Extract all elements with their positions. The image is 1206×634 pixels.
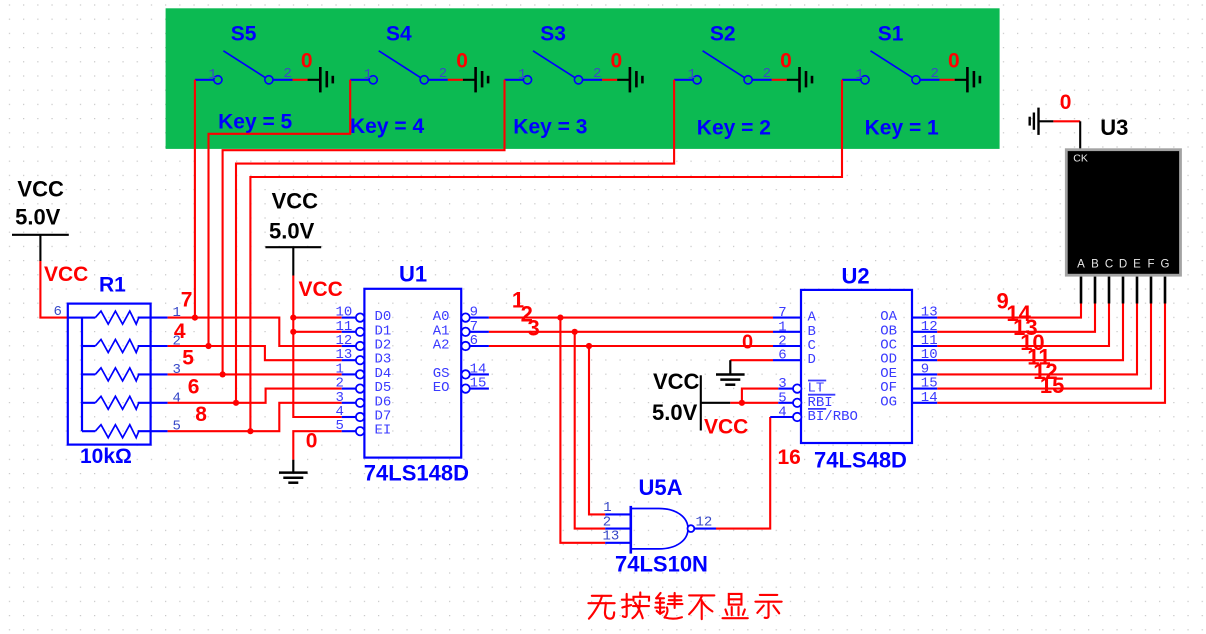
pin 5 U1 EI xyxy=(336,418,392,439)
net label 0 (U1 ground) xyxy=(306,430,318,453)
pin 9 U1 A0 xyxy=(433,305,489,326)
wire S3 pin2 to ground xyxy=(602,79,617,81)
junction A2 branch xyxy=(586,343,592,349)
svg-text:B: B xyxy=(1091,259,1099,271)
ground (digital, rotated) at S5 xyxy=(308,67,333,92)
svg-text:S3: S3 xyxy=(540,23,566,46)
switch S2 xyxy=(674,23,772,84)
wire R1 pin2 to U1 D3 xyxy=(168,346,342,360)
net label 4 xyxy=(174,320,186,343)
wire VCC branch to D0 xyxy=(293,317,341,319)
wire S2 pin2 to ground xyxy=(772,79,787,81)
junction S1 net xyxy=(247,428,253,434)
wire VCC to R1 pin6 xyxy=(40,261,67,318)
net label 0 at S5 xyxy=(301,50,313,73)
wire U1 EI to ground xyxy=(293,431,341,460)
svg-text:A2: A2 xyxy=(433,338,450,354)
svg-text:14: 14 xyxy=(921,390,938,406)
svg-text:1: 1 xyxy=(208,67,216,83)
junction S2 net xyxy=(233,400,239,406)
svg-text:13: 13 xyxy=(603,528,620,544)
svg-text:16: 16 xyxy=(778,446,801,469)
switch S5 xyxy=(195,23,293,84)
junction S5/R1 pin1/D2 net xyxy=(192,315,198,321)
pin 13 U1 D3 xyxy=(336,347,392,368)
svg-text:1: 1 xyxy=(173,305,181,321)
pin 14 U1 GS xyxy=(433,361,489,382)
svg-text:0: 0 xyxy=(301,50,313,73)
wire U1 A2 to U2 C xyxy=(489,345,773,347)
svg-text:S4: S4 xyxy=(386,23,412,46)
svg-text:0: 0 xyxy=(456,50,468,73)
svg-text:6: 6 xyxy=(54,304,62,320)
svg-text:A: A xyxy=(1077,259,1085,271)
wire A2 branch to U5A pin1 xyxy=(589,346,605,514)
svg-text:VCC: VCC xyxy=(704,416,748,439)
svg-text:2: 2 xyxy=(593,66,601,82)
svg-text:0: 0 xyxy=(742,331,753,353)
ground near U2 xyxy=(716,360,745,385)
wire S5 pin1 to node 7 row xyxy=(194,80,196,318)
svg-text:S2: S2 xyxy=(710,23,736,46)
value label 10kOhm xyxy=(80,445,132,468)
wire ground to U3 CK xyxy=(1053,120,1080,122)
wire U2 OG to display segment xyxy=(937,303,1165,403)
svg-text:0: 0 xyxy=(611,50,623,73)
label R1 xyxy=(99,274,126,297)
junction A0 branch xyxy=(557,315,563,321)
svg-text:5: 5 xyxy=(182,347,194,370)
svg-text:Key = 3: Key = 3 xyxy=(513,116,587,139)
label Key = 3 xyxy=(513,116,587,139)
pin G U3 stub xyxy=(1164,277,1167,304)
svg-text:5.0V: 5.0V xyxy=(15,205,61,230)
junction VCC/D0 xyxy=(290,315,296,321)
green highlight band behind switches xyxy=(166,8,1000,149)
svg-text:D: D xyxy=(808,352,816,368)
svg-text:74LS10N: 74LS10N xyxy=(615,552,708,577)
pin C U3 stub xyxy=(1108,277,1111,304)
pin A U3 stub xyxy=(1080,277,1083,304)
net label 11 xyxy=(1027,344,1050,369)
net label VCC (left, red) xyxy=(44,263,88,286)
display U3 seven-segment xyxy=(1066,150,1180,276)
pin 12 U2 OB xyxy=(880,319,937,340)
wire S1 pin2 to ground xyxy=(940,79,955,81)
wire U2 OA to display segment xyxy=(937,303,1081,318)
svg-text:R1: R1 xyxy=(99,274,126,297)
stub U2 BI/RBO xyxy=(770,416,793,418)
net label 0 (U3) xyxy=(1060,91,1072,114)
pin 4 U1 D7 xyxy=(336,404,392,425)
label U3 xyxy=(1100,115,1128,140)
wire VCC to U2 LT/RBI xyxy=(730,402,778,404)
svg-text:2: 2 xyxy=(763,66,771,82)
svg-text:G: G xyxy=(1161,259,1170,271)
net label 9 xyxy=(997,288,1009,313)
wire U2 OB to display segment xyxy=(937,303,1095,332)
net label 1 xyxy=(512,288,524,313)
net label 14 xyxy=(1006,301,1031,326)
wire U2 OC to display segment xyxy=(937,303,1109,346)
svg-text:EO: EO xyxy=(433,380,450,396)
net label 5 xyxy=(182,347,194,370)
svg-text:6: 6 xyxy=(778,348,786,364)
pin 9 U2 OE xyxy=(880,361,937,382)
label U5A xyxy=(639,475,683,500)
label U1 xyxy=(399,262,427,287)
svg-text:F: F xyxy=(1147,259,1154,271)
pin 11 U2 OC xyxy=(880,333,937,354)
pin 2 U1 D5 xyxy=(336,376,392,397)
svg-text:1: 1 xyxy=(364,67,372,83)
label 74LS48D xyxy=(814,448,907,473)
junction S3 net xyxy=(220,371,226,377)
junction A1 branch xyxy=(572,329,578,335)
junction VCC/D1 xyxy=(290,329,296,335)
wire S5 pin2 to ground xyxy=(293,79,308,81)
svg-text:U3: U3 xyxy=(1100,115,1128,140)
net label VCC (near U2, red) xyxy=(704,416,748,439)
svg-text:U1: U1 xyxy=(399,262,427,287)
net label VCC (middle, red) xyxy=(299,278,343,301)
pin 15 U1 EO xyxy=(433,376,489,397)
pin 3 U2 LT xyxy=(778,376,826,397)
wire U2 D to ground xyxy=(730,359,773,361)
wire U2 OD to display segment xyxy=(937,303,1123,360)
svg-text:VCC: VCC xyxy=(272,188,319,213)
svg-text:12: 12 xyxy=(696,515,713,531)
svg-text:2: 2 xyxy=(439,66,447,82)
svg-text:5: 5 xyxy=(173,419,181,435)
label Key = 1 xyxy=(865,116,939,139)
svg-text:6: 6 xyxy=(188,376,200,399)
svg-text:6: 6 xyxy=(470,333,478,349)
power VCC 5.0V (middle) xyxy=(265,188,321,275)
pin 7 U2 A xyxy=(773,305,817,326)
svg-text:5: 5 xyxy=(336,418,344,434)
net label 13 xyxy=(1013,315,1037,340)
resistor network R1 10k ohm xyxy=(54,304,181,445)
svg-text:1: 1 xyxy=(688,67,696,83)
svg-text:Key = 5: Key = 5 xyxy=(218,110,292,133)
svg-text:0: 0 xyxy=(1060,91,1072,114)
wire S4 pin1 to node 4 row xyxy=(209,80,351,346)
svg-text:Key = 2: Key = 2 xyxy=(697,116,771,139)
svg-text:8: 8 xyxy=(195,403,207,426)
net label 15 xyxy=(1040,373,1064,398)
pin 14 U2 OG xyxy=(880,390,937,411)
svg-text:2: 2 xyxy=(931,66,939,82)
net label 2 xyxy=(521,301,533,326)
label Key = 4 xyxy=(350,115,424,138)
svg-text:5.0V: 5.0V xyxy=(269,219,315,244)
wire R1 pin3 to U1 D4 xyxy=(168,373,342,375)
svg-text:0: 0 xyxy=(780,50,792,73)
junction VCC/RBI xyxy=(739,400,745,406)
svg-text:VCC: VCC xyxy=(17,176,64,201)
svg-text:10kΩ: 10kΩ xyxy=(80,445,132,468)
svg-text:D: D xyxy=(1119,259,1127,271)
svg-text:U5A: U5A xyxy=(639,475,683,500)
junction S4 net xyxy=(205,343,211,349)
pin 3 U1 D6 xyxy=(336,390,392,411)
svg-text:C: C xyxy=(1105,259,1113,271)
wire A0 branch to U5A pin13 xyxy=(560,318,605,543)
pin 1 U1 D4 xyxy=(336,361,392,382)
label U2 xyxy=(842,264,870,289)
wire U1 A1 to U2 B xyxy=(489,331,773,333)
svg-text:0: 0 xyxy=(306,430,318,453)
wire R1 pin5 to U1 D6 xyxy=(168,403,342,431)
svg-text:Key = 4: Key = 4 xyxy=(350,115,424,138)
svg-text:1: 1 xyxy=(518,67,526,83)
pin 1 U2 B xyxy=(773,319,816,340)
svg-text:7: 7 xyxy=(181,289,193,312)
label 74LS148D xyxy=(364,461,469,486)
svg-text:U2: U2 xyxy=(842,264,870,289)
pin 2 U2 C xyxy=(773,334,816,355)
pin 4 U2 BI/RBO xyxy=(778,405,858,426)
wire VCC to U1 D0/D1/D7 xyxy=(293,276,341,418)
svg-text:S1: S1 xyxy=(878,23,904,46)
pin E U3 stub xyxy=(1136,277,1139,304)
svg-text:4: 4 xyxy=(174,320,186,343)
svg-text:1: 1 xyxy=(856,67,864,83)
pin 10 U1 D0 xyxy=(336,305,392,326)
svg-text:0: 0 xyxy=(948,50,960,73)
net label 0 at S1 xyxy=(948,50,960,73)
svg-text:74LS148D: 74LS148D xyxy=(364,461,469,486)
svg-text:4: 4 xyxy=(778,405,786,421)
svg-text:E: E xyxy=(1133,259,1141,271)
ground under U1 xyxy=(279,460,308,483)
op IC U1 74LS148D body xyxy=(364,289,461,458)
wire U2 OE to display segment xyxy=(937,303,1137,374)
svg-text:2: 2 xyxy=(283,66,291,82)
switch S4 xyxy=(350,23,448,84)
ground at U3 xyxy=(1030,108,1054,135)
pin 11 U1 D1 xyxy=(336,319,392,340)
op IC U2 74LS48D body xyxy=(801,290,912,443)
svg-text:5.0V: 5.0V xyxy=(652,400,698,425)
svg-text:VCC: VCC xyxy=(653,369,700,394)
svg-text:VCC: VCC xyxy=(44,263,88,286)
pin 5 U2 RBI xyxy=(778,390,835,411)
switch S3 xyxy=(505,23,603,84)
pin 15 U2 OF xyxy=(880,376,937,397)
net label 8 xyxy=(195,403,207,426)
svg-text:EI: EI xyxy=(375,423,392,439)
pin 7 U1 A1 xyxy=(433,319,489,340)
wire S1 pin1 to node 8 row xyxy=(250,80,842,431)
pin 6 U2 D xyxy=(773,348,816,369)
svg-text:15: 15 xyxy=(1040,373,1064,398)
label Key = 2 xyxy=(697,116,771,139)
wire VCC branch to D1 xyxy=(293,331,341,333)
net label 16 xyxy=(778,446,801,469)
svg-text:4: 4 xyxy=(173,390,181,406)
pin D U3 stub xyxy=(1122,277,1125,304)
label 74LS10N xyxy=(615,552,708,577)
svg-text:VCC: VCC xyxy=(299,278,343,301)
wire R1 pin1 to U1 D2 xyxy=(168,318,342,346)
svg-text:15: 15 xyxy=(470,376,487,392)
net label 0 at S2 xyxy=(780,50,792,73)
pin F U3 stub xyxy=(1150,277,1153,304)
svg-text:Key = 1: Key = 1 xyxy=(865,116,939,139)
ground (digital, rotated) at S1 xyxy=(955,67,980,92)
net label 3 xyxy=(528,315,540,340)
power VCC 5.0V (left) xyxy=(12,176,69,261)
wire R1 pin4 to U1 D5 xyxy=(168,389,342,403)
wire S4 pin2 to ground xyxy=(448,79,463,81)
svg-text:CK: CK xyxy=(1073,153,1088,165)
svg-text:3: 3 xyxy=(528,315,540,340)
svg-text:74LS48D: 74LS48D xyxy=(814,448,907,473)
wire U2 OF to display segment xyxy=(937,303,1151,389)
ground (digital, rotated) at S3 xyxy=(617,67,642,92)
net label 12 xyxy=(1033,359,1057,384)
net label 7 xyxy=(181,289,193,312)
pin 10 U2 OD xyxy=(880,347,937,368)
net label 0 at S4 xyxy=(456,50,468,73)
caption: wu an jian bu xian shi (no key no display) xyxy=(588,592,781,619)
net label 10 xyxy=(1020,330,1044,355)
pin 6 U1 A2 xyxy=(433,333,489,354)
wire A1 branch to U5A pin2 xyxy=(575,332,606,529)
svg-text:OG: OG xyxy=(880,394,897,410)
net label 6 xyxy=(188,376,200,399)
svg-text:BI/RBO: BI/RBO xyxy=(808,409,858,425)
ground (digital, rotated) at S2 xyxy=(787,67,812,92)
svg-text:S5: S5 xyxy=(231,23,257,46)
wire U5A output to U2 BI/RBO xyxy=(716,417,770,529)
pin 12 U1 D2 xyxy=(336,333,392,354)
pin B U3 stub xyxy=(1094,277,1097,304)
ground (digital, rotated) at S4 xyxy=(463,67,488,92)
net label 0 (U2 C row) xyxy=(742,331,753,353)
svg-text:3: 3 xyxy=(173,362,181,378)
label Key = 5 xyxy=(218,110,292,133)
net label 0 at S3 xyxy=(611,50,623,73)
power VCC 5.0V (near U2) xyxy=(652,369,730,431)
pin 13 U2 OA xyxy=(880,305,937,326)
wire S2 pin1 to node 6 row xyxy=(236,80,674,403)
switch S1 xyxy=(842,23,940,84)
gate U5A 74LS10N xyxy=(603,500,717,554)
wire U1 A0 to U2 A xyxy=(489,317,773,319)
wire S3 pin1 to node 5 row xyxy=(223,80,505,375)
